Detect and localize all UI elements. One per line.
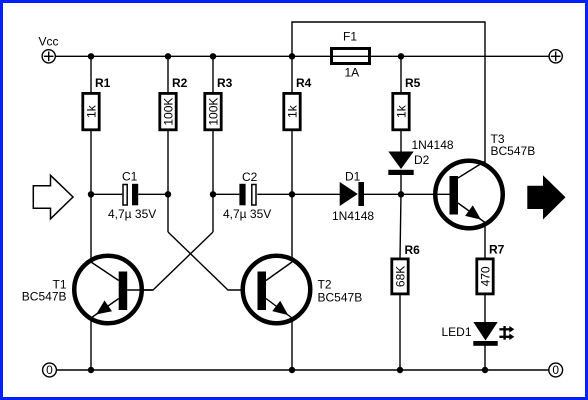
wire cross-couple to T1 base	[127, 232, 213, 290]
svg-text:4,7µ 35V: 4,7µ 35V	[108, 207, 156, 221]
node C2/R3	[210, 191, 216, 197]
fuse F1	[332, 30, 370, 80]
wire R3 top	[212, 56, 214, 92]
capacitor C2	[223, 170, 271, 221]
svg-text:4,7µ 35V: 4,7µ 35V	[223, 207, 271, 221]
svg-text:T2: T2	[318, 278, 332, 292]
svg-text:C2: C2	[242, 170, 258, 184]
wire bottom rail	[56, 369, 549, 371]
wire C2 right	[257, 193, 292, 195]
resistor R5	[393, 76, 421, 130]
wire LED1 to ground	[484, 346, 486, 371]
diode D2 1N4148	[388, 138, 454, 175]
node R3/rail	[210, 53, 216, 59]
wire D1 cathode to T3 base	[364, 193, 450, 195]
resistor R4	[284, 76, 312, 130]
svg-text:R1: R1	[95, 76, 111, 90]
node R1/rail	[88, 53, 94, 59]
svg-text:C1: C1	[122, 170, 138, 184]
svg-text:Vcc: Vcc	[39, 35, 59, 49]
wire C2 left	[213, 193, 239, 195]
terminal bottom left 0	[43, 363, 57, 377]
wire node to R6	[400, 194, 401, 258]
node T2 collector	[289, 191, 295, 197]
svg-text:68K: 68K	[393, 266, 407, 287]
node C1/R2	[165, 191, 171, 197]
svg-text:1k: 1k	[394, 104, 408, 118]
wire cross-couple to T2 base	[168, 232, 258, 290]
capacitor C1	[108, 170, 156, 222]
resistor R3	[205, 76, 233, 130]
resistor R1	[83, 76, 111, 130]
svg-text:0: 0	[552, 363, 559, 377]
node R6/ground	[397, 367, 403, 373]
node T2 emitter/ground	[289, 367, 295, 373]
wire R2 top	[167, 56, 169, 92]
svg-text:R7: R7	[489, 243, 505, 257]
node T1 collector	[88, 191, 94, 197]
svg-text:F1: F1	[343, 30, 357, 44]
svg-text:BC547B: BC547B	[318, 291, 363, 305]
svg-text:1N4148: 1N4148	[412, 138, 454, 152]
transistor T2	[243, 256, 362, 324]
svg-text:BC547B: BC547B	[22, 290, 67, 304]
wire R1 top	[90, 56, 92, 92]
wire D2 to node	[400, 175, 402, 195]
svg-text:1k: 1k	[285, 104, 299, 118]
wire R3 bottom to node	[212, 131, 214, 194]
wire node to T2 collector	[291, 194, 293, 262]
node D2/R6	[398, 191, 404, 197]
node LED1/ground	[482, 367, 488, 373]
wire fuse bypass	[292, 22, 485, 163]
wire C1 right	[138, 193, 168, 195]
wire R2 bottom to node	[167, 131, 169, 194]
node R4/rail	[289, 53, 295, 59]
LED LED1	[441, 322, 514, 346]
svg-text:1k: 1k	[84, 104, 98, 118]
wire node to T2 base stub	[167, 194, 169, 232]
svg-text:R5: R5	[405, 76, 421, 90]
transistor T3	[433, 132, 535, 228]
svg-text:R6: R6	[405, 243, 421, 257]
terminal Vcc +	[42, 50, 55, 63]
wire R6 to ground	[399, 295, 401, 370]
wire R5 to D2	[400, 131, 402, 152]
svg-text:100K: 100K	[206, 98, 220, 126]
input arrow	[33, 175, 73, 219]
resistor R7	[477, 243, 505, 294]
output arrow	[527, 175, 565, 219]
wire R5 top	[400, 56, 402, 92]
svg-text:470: 470	[478, 266, 492, 286]
svg-text:0: 0	[46, 363, 53, 377]
wire top rail	[55, 55, 549, 57]
node R5/rail	[398, 53, 404, 59]
wire R4 bottom to node	[291, 131, 293, 194]
wire node to D1 anode	[292, 193, 340, 195]
terminal top right +	[549, 50, 562, 63]
resistor R6	[392, 243, 420, 294]
diode D1 1N4148	[332, 170, 374, 224]
wire node to T1 collector	[90, 194, 92, 262]
svg-text:LED1: LED1	[441, 325, 471, 339]
wire R4 top	[291, 56, 293, 92]
wire R1 bottom to node	[90, 131, 92, 194]
svg-text:1N4148: 1N4148	[332, 209, 374, 223]
svg-text:100K: 100K	[161, 98, 175, 126]
node junction dots	[88, 53, 488, 373]
svg-text:R3: R3	[217, 76, 233, 90]
svg-text:R2: R2	[172, 76, 188, 90]
resistor R2	[160, 76, 188, 130]
wire T2 emitter to ground	[291, 318, 293, 370]
svg-text:BC547B: BC547B	[491, 144, 536, 158]
wire node to T1 base stub	[212, 194, 214, 232]
node R2/rail	[165, 53, 171, 59]
wire R7 to LED1	[484, 295, 486, 323]
svg-text:R4: R4	[296, 76, 312, 90]
wire T1 emitter to ground	[90, 318, 92, 370]
wire T3 emitter to R7	[484, 223, 486, 259]
transistor T1	[22, 256, 153, 324]
svg-text:D1: D1	[345, 170, 361, 184]
svg-text:D2: D2	[414, 153, 430, 167]
node T1 emitter/ground	[88, 367, 94, 373]
wire C1 left	[91, 193, 122, 195]
svg-text:1A: 1A	[345, 66, 360, 80]
terminal bottom right 0	[549, 363, 563, 377]
